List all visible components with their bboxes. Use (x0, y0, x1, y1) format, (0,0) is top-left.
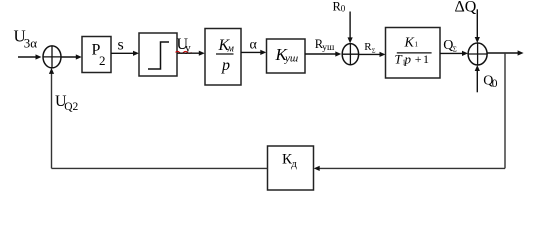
node R_ush label (315, 37, 335, 53)
svg-text:2: 2 (99, 53, 106, 68)
wire S1 to P2 (61, 54, 82, 59)
wire K1 to summer S3 (440, 51, 468, 56)
wire feedback takeoff vertical (504, 53, 506, 168)
block K1/(T1p+1) (386, 28, 441, 79)
block relay nonlinearity (139, 33, 177, 76)
wire feedback bottom right into Kd (314, 166, 505, 171)
svg-text:уш: уш (284, 53, 298, 65)
node U_Q2 label (55, 93, 79, 113)
node dQ label (455, 0, 477, 16)
svg-text:+: + (415, 52, 422, 66)
wire Km/p to Kush (241, 50, 266, 55)
svg-text:α: α (250, 38, 258, 53)
wire R_0 drop into S2 (348, 12, 353, 44)
node U_3a input label (14, 27, 38, 51)
summing junction S3 (468, 43, 487, 65)
block Kush (267, 39, 306, 73)
wire feedback bottom left from Kd (52, 167, 268, 169)
svg-text:p: p (221, 57, 230, 74)
svg-text:1: 1 (423, 52, 429, 66)
wire Kush to summer S2 (305, 51, 341, 56)
node R_sigma label (364, 41, 376, 54)
wire dQ drop into S3 (475, 9, 480, 43)
block Kd feedback sensor (268, 146, 314, 190)
svg-text:уш: уш (322, 43, 335, 53)
svg-text:м: м (227, 44, 235, 55)
wire relay to Km/p (177, 51, 205, 56)
svg-text:p: p (404, 51, 412, 66)
wire S2 to K1 block (359, 52, 386, 57)
svg-text:T: T (395, 51, 403, 66)
svg-text:K: K (404, 35, 415, 50)
svg-text:3α: 3α (24, 36, 38, 51)
svg-text:0: 0 (341, 4, 346, 14)
node U_y label with spellcheck squiggle (176, 36, 192, 55)
svg-text:д: д (291, 158, 297, 170)
node alpha label (250, 38, 258, 53)
summing junction S2 (342, 44, 358, 65)
node Q_0 label (483, 73, 498, 90)
wire P2 to relay (111, 51, 139, 56)
svg-text:1: 1 (415, 41, 419, 49)
wire Q_0 stub into S3 bottom (475, 65, 480, 92)
node s label (118, 37, 124, 54)
svg-text:ΔQ: ΔQ (455, 0, 477, 16)
block P2 regulator (82, 37, 111, 73)
svg-text:Σ: Σ (453, 45, 457, 53)
wire feedback left riser into S1 (49, 68, 54, 168)
node R_0 label (333, 0, 346, 14)
svg-text:Σ: Σ (372, 47, 376, 54)
block Km/p integrator (205, 29, 241, 86)
svg-text:0: 0 (492, 78, 498, 90)
wire input arrow into summer S1 (18, 54, 42, 59)
summing junction S1 (43, 46, 61, 68)
node Q_sigma label (443, 38, 457, 53)
svg-text:Q2: Q2 (64, 101, 78, 113)
svg-text:s: s (118, 37, 124, 54)
wire S3 to output (487, 50, 523, 55)
